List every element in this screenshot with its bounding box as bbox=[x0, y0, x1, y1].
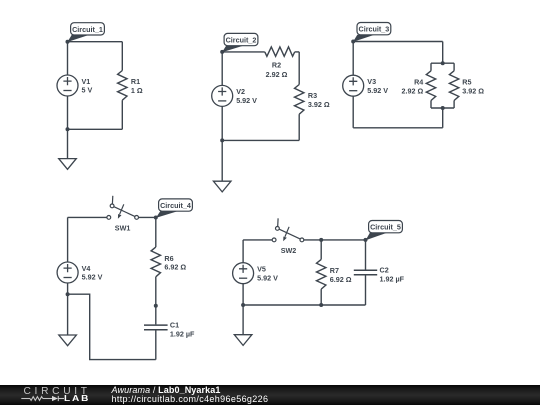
svg-text:2.92 Ω: 2.92 Ω bbox=[402, 87, 424, 96]
capacitor C1 bbox=[144, 306, 168, 360]
svg-text:6.92 Ω: 6.92 Ω bbox=[330, 275, 352, 284]
label R3 value bbox=[308, 91, 330, 109]
node flag Circuit_3 bbox=[353, 23, 391, 42]
svg-text:V2: V2 bbox=[236, 87, 245, 96]
wire right upper circuit 3 bbox=[442, 42, 444, 64]
node flag Circuit_4 bbox=[156, 199, 193, 218]
wire R7 to rail bbox=[320, 289, 322, 305]
svg-text:V3: V3 bbox=[367, 77, 376, 86]
wire top circuit 2 bbox=[222, 51, 265, 53]
svg-text:R4: R4 bbox=[414, 77, 423, 86]
svg-text:6.92 Ω: 6.92 Ω bbox=[164, 263, 186, 272]
resistor R2 bbox=[265, 47, 295, 56]
svg-text:Circuit_2: Circuit_2 bbox=[226, 36, 257, 45]
label V1 value bbox=[82, 77, 93, 95]
ground circuit 5 bbox=[234, 305, 252, 345]
svg-text:R1: R1 bbox=[131, 77, 140, 86]
svg-text:R2: R2 bbox=[272, 60, 281, 69]
footer logo LAB bbox=[64, 395, 90, 403]
svg-text:3.92 Ω: 3.92 Ω bbox=[308, 100, 330, 109]
label V5 value bbox=[257, 265, 278, 283]
wire bottom circuit 3 bbox=[353, 127, 443, 129]
node flag Circuit_5 bbox=[366, 221, 403, 241]
wire top circuit 3 bbox=[353, 41, 443, 43]
voltage source V1 bbox=[57, 42, 78, 130]
voltage source V2 bbox=[212, 52, 233, 140]
wire right upper circuit 2 bbox=[298, 52, 300, 85]
junction dot bottom circuit 1 bbox=[66, 127, 70, 131]
junction dot R6-C1 bbox=[154, 304, 158, 308]
svg-text:Circuit_1: Circuit_1 bbox=[72, 25, 103, 34]
label R1 value bbox=[131, 77, 143, 95]
svg-text:C1: C1 bbox=[170, 321, 179, 330]
wire top-right circuit 2 bbox=[295, 51, 300, 53]
wire top circuit 1 bbox=[68, 41, 123, 43]
svg-text:5 V: 5 V bbox=[82, 86, 93, 95]
svg-text:5.92 V: 5.92 V bbox=[82, 273, 103, 282]
wire top-left circuit 4 bbox=[68, 216, 107, 218]
wire node to R7 bbox=[320, 240, 322, 260]
node dot circuit 5 bbox=[364, 238, 368, 242]
footer attribution line bbox=[112, 385, 221, 395]
wire parallel top bracket bbox=[431, 62, 454, 64]
svg-text:SW1: SW1 bbox=[115, 223, 131, 232]
svg-text:C2: C2 bbox=[380, 266, 389, 275]
svg-text:R5: R5 bbox=[462, 77, 471, 86]
wire parallel bottom bracket bbox=[431, 107, 454, 109]
svg-text:V5: V5 bbox=[257, 265, 266, 274]
resistor R7 bbox=[317, 259, 326, 289]
svg-text:5.92 V: 5.92 V bbox=[257, 273, 278, 282]
junction dot parallel top circuit 3 bbox=[441, 61, 445, 65]
svg-text:3.92 Ω: 3.92 Ω bbox=[462, 87, 484, 96]
resistor R6 bbox=[151, 247, 160, 277]
svg-text:Circuit_3: Circuit_3 bbox=[359, 25, 390, 34]
label R6 value bbox=[164, 254, 186, 272]
junction dot parallel bottom circuit 3 bbox=[441, 106, 445, 110]
wire switch to node circuit 4 bbox=[139, 216, 156, 218]
resistor R3 bbox=[295, 85, 304, 115]
svg-text:SW2: SW2 bbox=[281, 246, 297, 255]
node flag Circuit_1 bbox=[67, 23, 104, 42]
wire right lower circuit 3 bbox=[442, 108, 444, 128]
svg-text:1 Ω: 1 Ω bbox=[131, 86, 143, 95]
svg-text:1.92 µF: 1.92 µF bbox=[170, 329, 195, 338]
label C2 value bbox=[380, 266, 405, 284]
wire right upper circuit 1 bbox=[121, 42, 123, 71]
wire bottom circuit 4 bbox=[68, 294, 156, 359]
node dot top circuit 2 bbox=[220, 50, 224, 54]
voltage source V3 bbox=[343, 42, 364, 128]
resistor R1 bbox=[118, 71, 127, 101]
label R7 value bbox=[330, 266, 352, 284]
svg-text:R7: R7 bbox=[330, 266, 339, 275]
node dot top-left circuit 3 bbox=[351, 40, 355, 44]
junction dot R7 top bbox=[319, 238, 323, 242]
wire node to R6 bbox=[155, 218, 157, 248]
footer logo squiggle bbox=[0, 385, 110, 405]
wire bottom circuit 5 bbox=[243, 304, 365, 306]
label V3 value bbox=[367, 77, 388, 95]
svg-text:2.92 Ω: 2.92 Ω bbox=[266, 70, 288, 79]
label C1 value bbox=[170, 321, 195, 339]
wire bottom circuit 2 bbox=[222, 139, 299, 141]
svg-text:Circuit_4: Circuit_4 bbox=[160, 201, 191, 210]
svg-text:R3: R3 bbox=[308, 91, 317, 100]
wire bottom circuit 1 bbox=[68, 128, 123, 130]
wire top-left circuit 5 bbox=[243, 239, 272, 241]
node dot circuit 4 bbox=[154, 216, 158, 220]
svg-text:5.92 V: 5.92 V bbox=[367, 86, 388, 95]
junction dot bottom circuit 5 bbox=[241, 303, 245, 307]
voltage source V4 bbox=[57, 217, 78, 294]
node flag Circuit_2 bbox=[222, 33, 258, 52]
svg-text:1.92 µF: 1.92 µF bbox=[380, 274, 405, 283]
ground circuit 1 bbox=[59, 129, 77, 169]
resistor R4 bbox=[426, 63, 435, 108]
junction dot R7 bottom bbox=[319, 303, 323, 307]
label V4 value bbox=[82, 264, 103, 282]
ground circuit 4 bbox=[59, 294, 77, 346]
footer bar bbox=[0, 385, 540, 405]
label R2 value bbox=[266, 60, 288, 79]
voltage source V5 bbox=[233, 240, 254, 305]
svg-text:V1: V1 bbox=[82, 77, 91, 86]
wire switch to node circuit 5 bbox=[304, 239, 366, 241]
junction dot bottom circuit 2 bbox=[220, 138, 224, 142]
switch SW2 bbox=[272, 218, 304, 242]
svg-text:R6: R6 bbox=[164, 254, 173, 263]
wire right lower circuit 2 bbox=[298, 114, 300, 140]
footer url line bbox=[112, 394, 269, 404]
wire R6 to junction bbox=[155, 277, 157, 306]
svg-text:5.92 V: 5.92 V bbox=[236, 96, 257, 105]
resistor R5 bbox=[449, 63, 458, 108]
svg-text:Circuit_5: Circuit_5 bbox=[370, 223, 401, 232]
label V2 value bbox=[236, 87, 257, 105]
junction dot V4 bottom bbox=[66, 292, 70, 296]
label R4 value bbox=[402, 77, 424, 95]
ground circuit 2 bbox=[213, 140, 231, 192]
switch SW1 bbox=[107, 196, 139, 220]
capacitor C2 bbox=[354, 240, 377, 305]
svg-text:V4: V4 bbox=[82, 264, 91, 273]
wire right lower circuit 1 bbox=[121, 100, 123, 129]
footer logo CIRCUIT bbox=[24, 387, 91, 397]
node dot top-left circuit 1 bbox=[66, 40, 70, 44]
label R5 value bbox=[462, 77, 484, 95]
